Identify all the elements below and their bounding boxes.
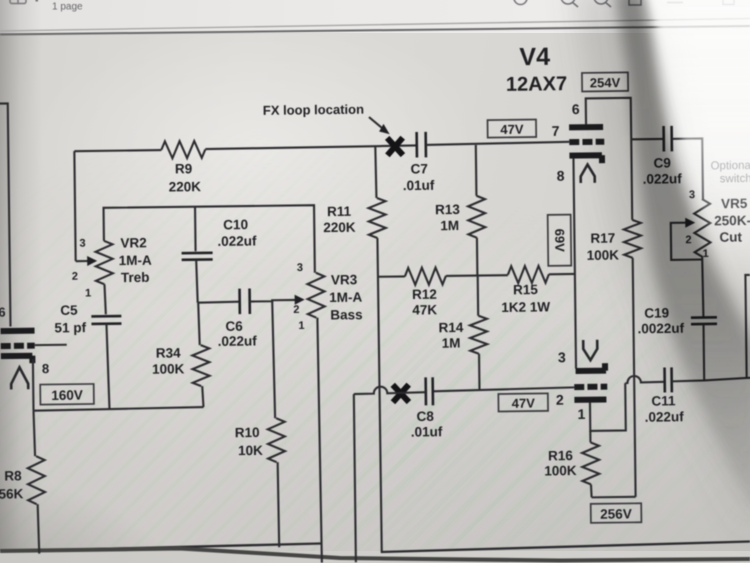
left tube V3 cathode — [1, 356, 33, 364]
svg-text:Treb: Treb — [121, 270, 150, 285]
svg-text:2: 2 — [556, 392, 564, 408]
svg-text:R16: R16 — [548, 448, 573, 463]
svg-text:R12: R12 — [412, 287, 437, 302]
triode V4a grid — [569, 139, 604, 145]
svg-text:1: 1 — [577, 406, 585, 422]
wire grid stub V3 — [35, 344, 67, 346]
wire C19 down — [702, 324, 705, 379]
capacitor C8 — [426, 377, 433, 405]
wire cathode mid rail — [378, 275, 404, 277]
below page edge strip — [0, 551, 750, 563]
heater V4a — [581, 165, 595, 183]
svg-text:VR3: VR3 — [331, 272, 358, 287]
svg-text:1M: 1M — [440, 218, 459, 233]
wire VR2 top to node A — [104, 205, 315, 275]
node 69V box rotated — [548, 215, 572, 266]
svg-text:3: 3 — [297, 262, 303, 274]
wire hop over R17 line — [625, 376, 665, 384]
wire C9 to VR5 — [672, 138, 703, 199]
svg-text:R9: R9 — [175, 161, 192, 176]
wire C6 to VR3 wiper — [250, 300, 297, 302]
left tube V3 grid — [1, 343, 35, 349]
svg-text:V4: V4 — [519, 43, 550, 71]
resistor R10 — [272, 300, 275, 418]
svg-text:FX loop location: FX loop location — [263, 102, 364, 118]
svg-text:.01uf: .01uf — [403, 178, 435, 193]
ui pages icon top-left — [10, 0, 38, 4]
resistor R14 — [477, 276, 480, 316]
svg-text:R15: R15 — [513, 282, 538, 297]
wire corner down to bottom — [354, 394, 356, 562]
ui icon zoom-in — [594, 0, 611, 7]
svg-text:C6: C6 — [225, 319, 243, 334]
wire node B to C6 — [198, 302, 240, 303]
capacitor C9 — [664, 126, 672, 152]
wire X to corner with hop — [354, 386, 426, 394]
svg-text:69V: 69V — [552, 229, 567, 253]
bright restore over shadow spill top-right — [648, 0, 750, 290]
resistor R17 — [630, 139, 633, 219]
svg-text:C10: C10 — [223, 217, 248, 232]
svg-text:R34: R34 — [156, 345, 181, 360]
wire plate lead V3 pin 6 to top-left — [0, 103, 10, 326]
svg-text:1: 1 — [85, 287, 91, 299]
capacitor C19 — [691, 317, 717, 324]
resistor R13 — [475, 145, 478, 196]
capacitor C10 — [182, 253, 213, 260]
wire R9 left corner down to VR2 wiper — [74, 151, 75, 261]
hand shadow penumbra — [572, 0, 750, 545]
hand shadow band core — [614, 0, 750, 520]
ui icon zoom-out — [561, 0, 578, 7]
svg-text:220K: 220K — [169, 179, 202, 194]
svg-text:10K: 10K — [238, 443, 263, 458]
svg-text:100K: 100K — [544, 463, 577, 478]
svg-text:.01uf: .01uf — [411, 424, 443, 439]
wire cathode V4a down rail — [573, 159, 576, 369]
wire C8 to grid V4b — [433, 387, 575, 391]
resistor R16 — [589, 431, 591, 442]
node 47V box top — [487, 120, 536, 138]
wire bottom-left ground bus — [36, 544, 321, 551]
triode V4b plate — [574, 396, 606, 402]
wire VR5 wiper loop — [671, 223, 702, 260]
page bottom edge — [0, 549, 750, 561]
resistor R11 — [375, 146, 376, 198]
node 254V box — [582, 72, 628, 91]
node 256V box — [591, 503, 642, 523]
bright reflection top-right (under ink) — [642, 0, 750, 290]
wire plate V4a up and over — [586, 98, 632, 140]
wire plate V4b down-right-up — [590, 383, 626, 431]
svg-text:R10: R10 — [235, 425, 260, 440]
svg-text:1M-A: 1M-A — [329, 290, 362, 305]
svg-text:1K2 1W: 1K2 1W — [501, 299, 550, 315]
svg-text:6: 6 — [572, 101, 580, 117]
left tube V3 plate — [1, 328, 35, 334]
svg-text:2: 2 — [72, 271, 78, 283]
ui icon window — [629, 0, 641, 5]
triode V4a cathode — [569, 155, 602, 163]
wire VR2 wiper arrow — [76, 260, 89, 262]
FX cut mark X bottom — [393, 385, 409, 403]
svg-text:47V: 47V — [512, 396, 536, 411]
wire VR3 bottom down — [317, 318, 321, 563]
svg-text:1 page: 1 page — [52, 2, 83, 13]
page top edge line thin — [0, 19, 750, 32]
svg-text:1M-A: 1M-A — [119, 253, 152, 268]
svg-text:100K: 100K — [152, 361, 185, 376]
svg-text:C5: C5 — [60, 303, 78, 318]
wire C7 to grid pin7 — [426, 142, 570, 145]
capacitor C6 — [240, 289, 250, 315]
svg-text:R11: R11 — [327, 204, 352, 219]
svg-text:51 pf: 51 pf — [54, 320, 86, 335]
wire R16 to R17 bottom node — [592, 496, 636, 499]
svg-text:C7: C7 — [410, 161, 427, 176]
wire C10 bottom — [196, 260, 198, 303]
potentiometer VR5 — [694, 199, 711, 257]
ui icon share circle — [514, 0, 527, 5]
svg-text:.022uf: .022uf — [218, 333, 258, 348]
top chrome strip — [0, 0, 750, 33]
svg-text:.022uf: .022uf — [217, 233, 257, 248]
svg-text:Bass: Bass — [330, 307, 362, 322]
svg-text:R8: R8 — [4, 468, 22, 483]
svg-text:7: 7 — [552, 123, 560, 139]
resistor R12 — [405, 267, 446, 284]
heater V4b — [583, 340, 597, 360]
svg-text:100K: 100K — [587, 248, 620, 263]
triode V4b cathode — [575, 363, 606, 371]
svg-text:R17: R17 — [590, 231, 615, 246]
wire VR2 pin1 to C5 — [104, 284, 105, 314]
svg-text:56K: 56K — [0, 486, 24, 501]
svg-text:1M: 1M — [442, 335, 461, 350]
svg-text:256V: 256V — [600, 506, 632, 521]
svg-text:220K: 220K — [323, 220, 356, 235]
wire VR5 to C19 — [702, 257, 703, 317]
wire cathode bus to R34 — [33, 407, 203, 411]
triode V4a plate — [569, 124, 603, 130]
triode V4b grid — [574, 384, 607, 390]
svg-text:2: 2 — [293, 304, 299, 316]
FX cut mark X top — [387, 138, 403, 156]
wire plate node to C9 — [631, 138, 663, 140]
resistor R9 — [74, 150, 161, 151]
ui icon maximize — [723, 0, 734, 5]
potentiometer VR3 — [307, 273, 325, 318]
wire bottom-right ground bus — [381, 542, 750, 553]
wire optional switch right — [745, 275, 750, 378]
wire C11 to right edge bus — [672, 378, 750, 382]
page top edge line dark — [0, 26, 750, 35]
ui icon minimize — [667, 2, 683, 4]
arrow FX pointer — [369, 117, 383, 129]
wire C10 top — [194, 207, 197, 251]
svg-text:8: 8 — [42, 361, 49, 376]
left tube V3 heater — [11, 367, 28, 389]
capacitor C5 — [91, 316, 121, 324]
svg-text:VR2: VR2 — [120, 235, 146, 250]
capacitor C7 — [417, 132, 426, 158]
svg-text:3: 3 — [558, 349, 566, 365]
svg-text:8: 8 — [557, 168, 565, 184]
wire cathode V3 down — [32, 359, 35, 410]
wire C5 down — [106, 324, 109, 410]
resistor R34 — [198, 303, 200, 346]
svg-text:3: 3 — [79, 238, 85, 250]
svg-text:47V: 47V — [500, 122, 524, 137]
svg-text:160V: 160V — [51, 388, 83, 403]
svg-text:47K: 47K — [412, 302, 437, 317]
svg-text:.022uf: .022uf — [645, 409, 685, 424]
resistor R8 — [34, 411, 36, 457]
resistor R15 — [508, 266, 549, 283]
svg-text:R13: R13 — [435, 202, 460, 217]
svg-text:R14: R14 — [438, 320, 463, 335]
potentiometer VR2 — [95, 241, 113, 285]
capacitor C11 — [665, 367, 672, 392]
node 160V box — [40, 384, 94, 405]
node 47V box bottom — [498, 393, 548, 411]
svg-text:12AX7: 12AX7 — [506, 73, 567, 96]
svg-text:C8: C8 — [417, 409, 435, 424]
svg-text:6: 6 — [0, 305, 6, 320]
svg-text:1: 1 — [298, 320, 304, 332]
